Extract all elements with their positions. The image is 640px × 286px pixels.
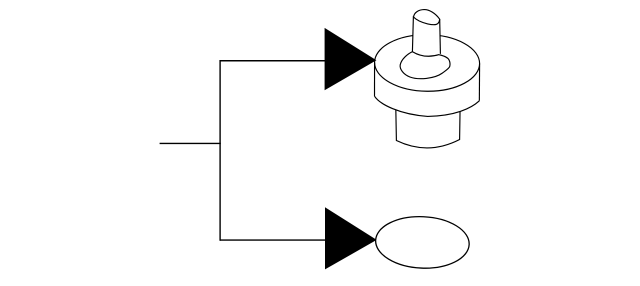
stem body fill: [412, 16, 440, 55]
arrow: bottom callout: [325, 207, 377, 269]
body top face back edge: [375, 35, 480, 64]
body right side: [478, 63, 480, 100]
part: valve lower cylinder: [396, 107, 460, 148]
body left side: [374, 62, 376, 96]
stem left edge: [412, 16, 413, 52]
stem base fillet curve: [413, 52, 440, 57]
stem right edge: [439, 19, 442, 54]
arrow: top callout: [325, 28, 377, 90]
part: valve main body: [375, 35, 480, 117]
wire: left stub: [160, 142, 221, 144]
wire: bottom branch: [220, 239, 330, 241]
wire: top branch: [220, 60, 330, 62]
wire: vertical trunk: [219, 60, 221, 241]
body top face front edge: [375, 62, 480, 91]
part: gasket ellipse: [374, 215, 470, 271]
part: valve dome boss: [400, 51, 450, 78]
body bottom edge: [375, 96, 480, 116]
part: valve stem: [412, 10, 440, 57]
stem top face: [414, 10, 440, 25]
